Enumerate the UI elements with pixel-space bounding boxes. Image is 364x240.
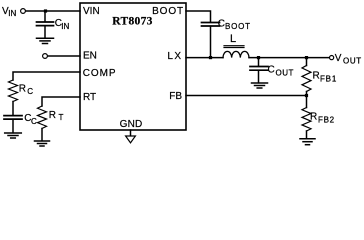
- svg-text:R: R: [310, 112, 317, 123]
- svg-text:R: R: [49, 110, 56, 121]
- svg-text:L: L: [230, 33, 236, 45]
- svg-text:IN: IN: [8, 9, 16, 18]
- svg-text:OUT: OUT: [276, 69, 294, 78]
- svg-text:RT: RT: [83, 92, 96, 103]
- svg-text:FB: FB: [169, 91, 182, 102]
- svg-text:GND: GND: [120, 119, 143, 130]
- svg-text:IN: IN: [61, 22, 69, 31]
- svg-text:FB2: FB2: [318, 116, 335, 125]
- svg-text:LX: LX: [167, 51, 182, 62]
- svg-text:C: C: [27, 87, 33, 96]
- svg-text:C: C: [31, 117, 37, 126]
- svg-text:FB1: FB1: [320, 75, 337, 84]
- svg-text:COMP: COMP: [83, 68, 117, 79]
- svg-text:BOOT: BOOT: [152, 6, 184, 17]
- svg-text:C: C: [268, 65, 275, 76]
- svg-text:V: V: [335, 53, 342, 64]
- svg-text:R: R: [19, 83, 26, 94]
- svg-text:BOOT: BOOT: [225, 22, 251, 31]
- svg-text:R: R: [313, 71, 320, 82]
- svg-text:VIN: VIN: [83, 6, 100, 17]
- svg-text:RT8073: RT8073: [112, 16, 152, 28]
- svg-text:EN: EN: [83, 51, 97, 62]
- svg-text:C: C: [218, 19, 225, 30]
- svg-text:OUT: OUT: [343, 56, 362, 65]
- svg-text:T: T: [59, 113, 64, 122]
